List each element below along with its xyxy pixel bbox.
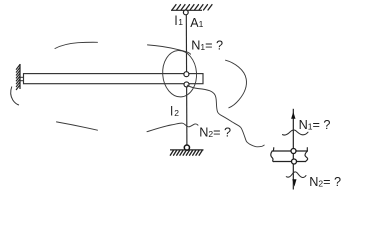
svg-text:l1: l1 — [175, 14, 184, 28]
svg-text:N1= ?: N1= ? — [191, 38, 223, 52]
svg-text:l2: l2 — [170, 104, 179, 118]
svg-text:N2= ?: N2= ? — [199, 126, 231, 140]
svg-text:N2= ?: N2= ? — [309, 175, 341, 189]
svg-text:A1: A1 — [190, 16, 203, 30]
svg-text:N1= ?: N1= ? — [299, 118, 331, 132]
